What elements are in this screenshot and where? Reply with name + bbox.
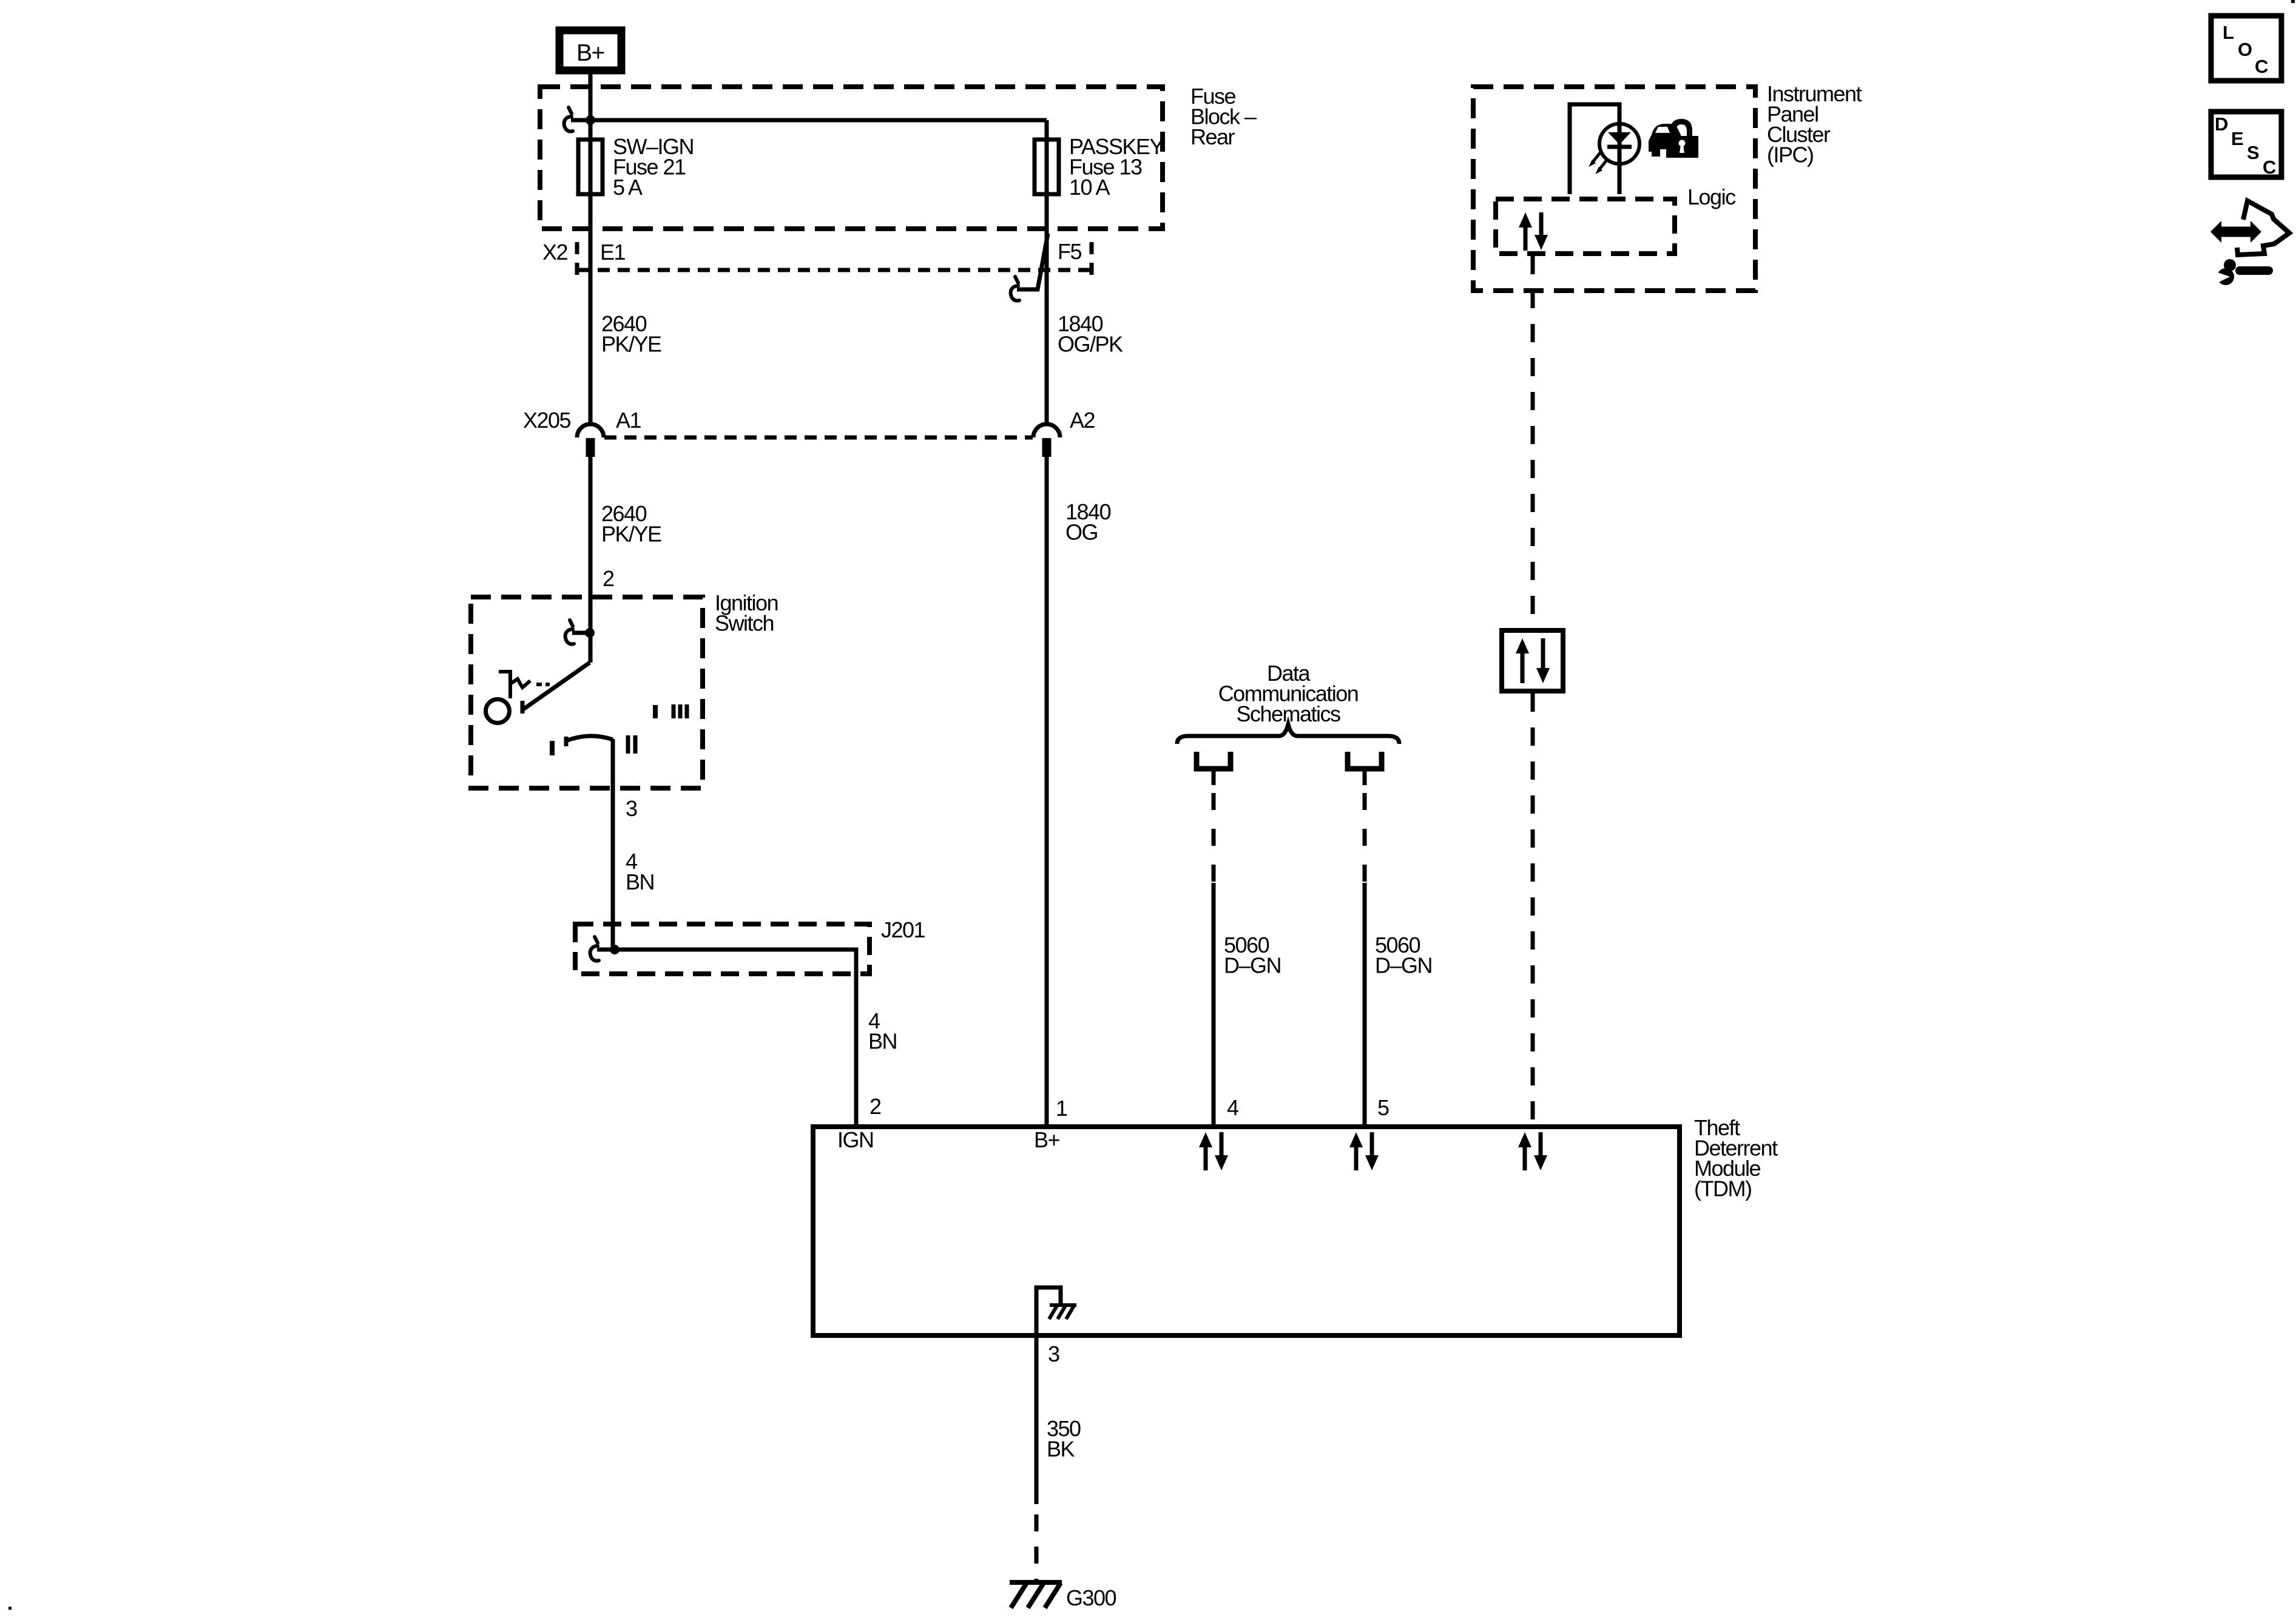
splice pack J201 dashed box bbox=[575, 924, 869, 974]
internal chassis ground symbol bbox=[1049, 1305, 1076, 1319]
position mark II bbox=[628, 735, 635, 754]
svg-text:S: S bbox=[2247, 142, 2259, 163]
serial data arrows in TDM pin 4 bbox=[1199, 1132, 1228, 1170]
terminal clip at fuse block feed bbox=[564, 107, 590, 132]
label Instrument Panel Cluster (IPC) bbox=[1767, 81, 1862, 167]
connector X205 terminal A1 bbox=[577, 408, 641, 457]
serial data link box bbox=[1502, 630, 1563, 691]
svg-text:Logic: Logic bbox=[1687, 184, 1736, 209]
wire label 5060 D-GN left bbox=[1224, 933, 1281, 978]
switch contact arc bbox=[566, 736, 613, 746]
svg-text:BK: BK bbox=[1047, 1437, 1075, 1462]
stub left bbox=[1212, 771, 1216, 785]
svg-text:1: 1 bbox=[1056, 1096, 1067, 1121]
label Theft Deterrent Module (TDM) bbox=[1694, 1115, 1778, 1201]
wire bus inside fuse block bbox=[590, 118, 1047, 123]
harness routing icon wrench bbox=[2212, 259, 2273, 285]
svg-text:D–GN: D–GN bbox=[1224, 953, 1281, 978]
svg-text:2: 2 bbox=[603, 566, 614, 591]
internal ground wire TDM bbox=[1036, 1288, 1061, 1335]
svg-text:C: C bbox=[2255, 56, 2268, 77]
svg-text:5 A: 5 A bbox=[613, 175, 643, 200]
fuse F13 PASSKEY bbox=[1035, 134, 1164, 200]
svg-text:G300: G300 bbox=[1066, 1585, 1116, 1610]
connector X2 right tick bbox=[1090, 242, 1094, 275]
connector X2 left tick bbox=[575, 242, 579, 275]
dashed wire data left bbox=[1212, 793, 1216, 883]
ground G300 symbol bbox=[1010, 1582, 1062, 1608]
svg-text:E1: E1 bbox=[600, 240, 626, 265]
svg-text:Switch: Switch bbox=[715, 611, 774, 636]
stub right bbox=[1363, 771, 1367, 785]
svg-text:B+: B+ bbox=[1034, 1127, 1060, 1152]
position mark I (lower) bbox=[550, 741, 555, 755]
wire label 1840 OG bbox=[1065, 499, 1111, 545]
key cylinder circle bbox=[486, 700, 510, 723]
svg-text:A2: A2 bbox=[1070, 408, 1095, 433]
security car icon bbox=[1649, 124, 1681, 157]
svg-text:E: E bbox=[2231, 128, 2243, 149]
page artifact mark top right bbox=[2291, 0, 2295, 3]
page artifact dot bottom left bbox=[8, 1607, 12, 1610]
svg-text:Rear: Rear bbox=[1190, 124, 1235, 149]
svg-text:J201: J201 bbox=[881, 917, 925, 942]
serial data arrows in TDM ipc pin bbox=[1518, 1132, 1547, 1170]
serial data arrows in link box bbox=[1516, 638, 1550, 683]
terminal clip at switch pin 2 bbox=[566, 620, 590, 644]
label Data Communication Schematics bbox=[1218, 661, 1359, 726]
svg-text:D: D bbox=[2215, 113, 2228, 135]
terminal clip in J201 bbox=[590, 937, 615, 961]
svg-text:X2: X2 bbox=[542, 240, 568, 265]
indicator LED wire bbox=[1618, 104, 1622, 194]
harness routing icon connector outline bbox=[2237, 201, 2289, 255]
position mark I (upper) bbox=[653, 705, 658, 718]
svg-text:BN: BN bbox=[626, 869, 654, 894]
power feed B+ box bbox=[559, 30, 621, 70]
svg-text:X205: X205 bbox=[523, 408, 571, 433]
wire label 5060 D-GN right bbox=[1375, 933, 1432, 978]
svg-text:3: 3 bbox=[626, 796, 637, 821]
svg-text:4: 4 bbox=[1227, 1095, 1238, 1120]
wire label 4 BN upper bbox=[626, 849, 654, 894]
wire through PASSKEY fuse bbox=[1045, 120, 1049, 424]
svg-text:5: 5 bbox=[1377, 1095, 1389, 1120]
wire J201 bus bbox=[615, 950, 856, 1124]
svg-text:BN: BN bbox=[868, 1029, 897, 1054]
svg-text:PK/YE: PK/YE bbox=[601, 522, 661, 547]
wire B+ to fuse block bbox=[589, 74, 593, 121]
indicator feed wire bbox=[1570, 104, 1619, 194]
wire through SW-IGN fuse bbox=[589, 120, 593, 424]
DESC corner box bbox=[2211, 112, 2281, 178]
position mark III bbox=[674, 704, 687, 718]
wire label 1840 OG/PK bbox=[1058, 311, 1123, 357]
junction bbox=[586, 115, 595, 125]
svg-text:(IPC): (IPC) bbox=[1767, 143, 1814, 167]
svg-text:O: O bbox=[2238, 39, 2252, 60]
svg-text:L: L bbox=[2223, 22, 2234, 43]
serial data arrows in logic box bbox=[1519, 212, 1548, 251]
wire label 4 BN lower bbox=[868, 1008, 897, 1054]
LED cathode bar bbox=[1607, 145, 1632, 149]
wire switch pin 3 to J201 bbox=[611, 739, 615, 950]
dashed wire data right bbox=[1363, 793, 1367, 883]
svg-text:OG/PK: OG/PK bbox=[1058, 332, 1123, 357]
svg-text:PK/YE: PK/YE bbox=[601, 332, 661, 357]
fuse block rear dashed box bbox=[540, 87, 1163, 229]
instrument panel cluster dashed box bbox=[1473, 87, 1755, 291]
svg-text:C: C bbox=[2263, 157, 2276, 178]
svg-text:2: 2 bbox=[869, 1094, 881, 1119]
dashed wire IPC to serial box bbox=[1531, 256, 1535, 628]
security padlock icon bbox=[1666, 119, 1698, 158]
terminal F5 pigtail bbox=[1011, 234, 1048, 301]
svg-text:D–GN: D–GN bbox=[1375, 953, 1432, 978]
off-page connector right bbox=[1348, 752, 1382, 769]
brace bbox=[1177, 724, 1399, 744]
svg-text:IGN: IGN bbox=[837, 1127, 874, 1152]
wire to TDM pin 5 bbox=[1363, 883, 1367, 1124]
connector X205 dashed row bbox=[604, 436, 1033, 440]
connector X2 row dashed line bbox=[578, 268, 1096, 272]
svg-text:OG: OG bbox=[1065, 520, 1098, 545]
wire label 2640 PK/YE lower bbox=[601, 501, 661, 547]
connector X205 terminal A2 bbox=[1033, 408, 1095, 457]
LOC corner box bbox=[2211, 16, 2281, 81]
LED light arrow 1 bbox=[1589, 153, 1600, 167]
LED triangle bbox=[1608, 132, 1631, 144]
wire label 2640 PK/YE upper bbox=[601, 311, 661, 357]
svg-text:A1: A1 bbox=[616, 408, 641, 433]
svg-text:B+: B+ bbox=[576, 40, 604, 66]
wire TDM pin 3 to ground bbox=[1035, 1338, 1039, 1504]
serial data arrows in TDM pin 5 bbox=[1349, 1132, 1379, 1170]
label Ignition Switch bbox=[715, 590, 778, 636]
LED light arrow 2 bbox=[1595, 160, 1607, 174]
svg-text:F5: F5 bbox=[1058, 239, 1081, 264]
logic dashed box bbox=[1496, 199, 1675, 254]
wire A1 to ignition switch bbox=[589, 457, 593, 663]
svg-text:(TDM): (TDM) bbox=[1694, 1176, 1751, 1201]
label Fuse Block - Rear bbox=[1190, 84, 1257, 149]
ignition switch dashed box bbox=[471, 597, 703, 788]
wire label 350 BK bbox=[1047, 1416, 1081, 1462]
indicator LED circle bbox=[1599, 124, 1639, 164]
key symbol bbox=[499, 672, 550, 698]
wiper end tick bbox=[521, 701, 525, 714]
junction switch pin 2 bbox=[585, 628, 595, 638]
theft deterrent module box bbox=[813, 1127, 1680, 1335]
switch wiper arm bbox=[522, 663, 590, 710]
wire to TDM pin 4 bbox=[1212, 883, 1216, 1124]
harness routing icon double arrow bbox=[2210, 221, 2261, 243]
svg-text:3: 3 bbox=[1048, 1342, 1059, 1366]
fuse F21 SW-IGN bbox=[578, 134, 694, 200]
off-page connector left bbox=[1197, 752, 1231, 769]
dashed wire to G300 bbox=[1035, 1514, 1039, 1581]
svg-text:10 A: 10 A bbox=[1069, 175, 1110, 200]
dashed wire serial box to TDM bbox=[1531, 694, 1535, 1124]
junction J201 bbox=[610, 945, 620, 954]
wire A2 to TDM pin 1 bbox=[1045, 457, 1049, 1124]
